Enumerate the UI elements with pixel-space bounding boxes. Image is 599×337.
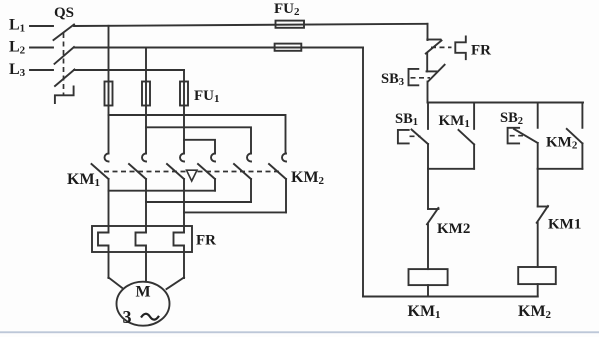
svg-text:KM1: KM1 [408,303,441,321]
svg-text:KM2: KM2 [546,135,578,152]
svg-text:FR: FR [471,42,491,58]
svg-text:QS: QS [54,5,74,21]
svg-text:KM2: KM2 [518,303,552,321]
svg-text:M: M [135,283,150,300]
svg-text:KM1: KM1 [548,217,581,233]
svg-text:KM2: KM2 [437,221,470,237]
svg-text:KM1: KM1 [67,171,100,189]
svg-text:FR: FR [196,233,216,249]
svg-text:KM2: KM2 [291,169,325,187]
svg-text:L3: L3 [9,61,26,79]
svg-text:SB3: SB3 [381,71,404,88]
svg-text:L2: L2 [9,39,26,57]
svg-text:SB2: SB2 [500,110,523,127]
svg-text:FU1: FU1 [194,88,220,105]
svg-text:KM1: KM1 [439,113,470,130]
svg-text:FU2: FU2 [274,1,300,18]
svg-text:SB1: SB1 [395,111,418,128]
svg-text:3: 3 [123,307,132,327]
svg-text:L1: L1 [9,17,25,35]
